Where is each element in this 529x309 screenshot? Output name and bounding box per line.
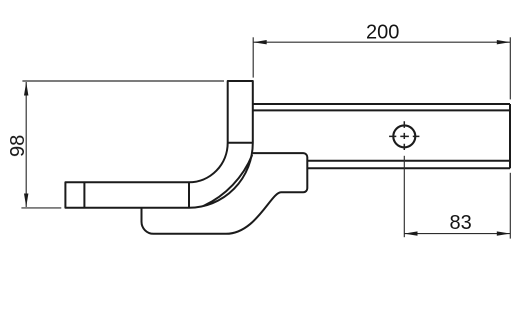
dim 200 right arrow — [497, 40, 511, 44]
dim 200 left extension line — [252, 37, 254, 77]
hole centerline extension down to 83 dim — [403, 156, 405, 237]
dim 200/83 right extension line upper part — [509, 37, 511, 99]
dim 83 left arrow — [404, 231, 418, 235]
dim 98 bottom extension line — [21, 207, 61, 209]
hole centerline vertical dashes and extension to 83 dim — [403, 121, 405, 150]
dim 98 line — [25, 82, 27, 207]
dim 83 right extension line lower part — [509, 173, 511, 239]
dim 98 bottom arrow — [24, 194, 28, 208]
ball mount bent bar outline — [65, 81, 252, 208]
fishtail bracket plate outline — [142, 153, 308, 234]
dim 200 line — [253, 41, 510, 43]
hole centerline horizontal dashes — [389, 135, 419, 137]
bend upper junction line — [228, 142, 253, 144]
hole circle — [393, 125, 415, 147]
bend lower junction line — [188, 182, 190, 207]
bend outer second arc — [204, 155, 252, 206]
tube right end edge — [509, 104, 511, 168]
svg-text:200: 200 — [366, 22, 399, 44]
dim 98 top arrow — [24, 82, 28, 96]
dim 200 left arrow — [253, 40, 267, 44]
dim 98 top extension line — [22, 80, 224, 82]
tube bottom inner edge — [307, 160, 510, 162]
tube top inner edge — [253, 109, 510, 111]
svg-text:83: 83 — [449, 212, 471, 234]
tube top outer edge — [253, 103, 510, 105]
bar end cap line — [83, 182, 85, 207]
svg-text:98: 98 — [7, 135, 29, 157]
tube bottom outer edge — [307, 167, 510, 169]
dim 83 right arrow — [497, 231, 511, 235]
dim 83 line — [404, 233, 510, 235]
